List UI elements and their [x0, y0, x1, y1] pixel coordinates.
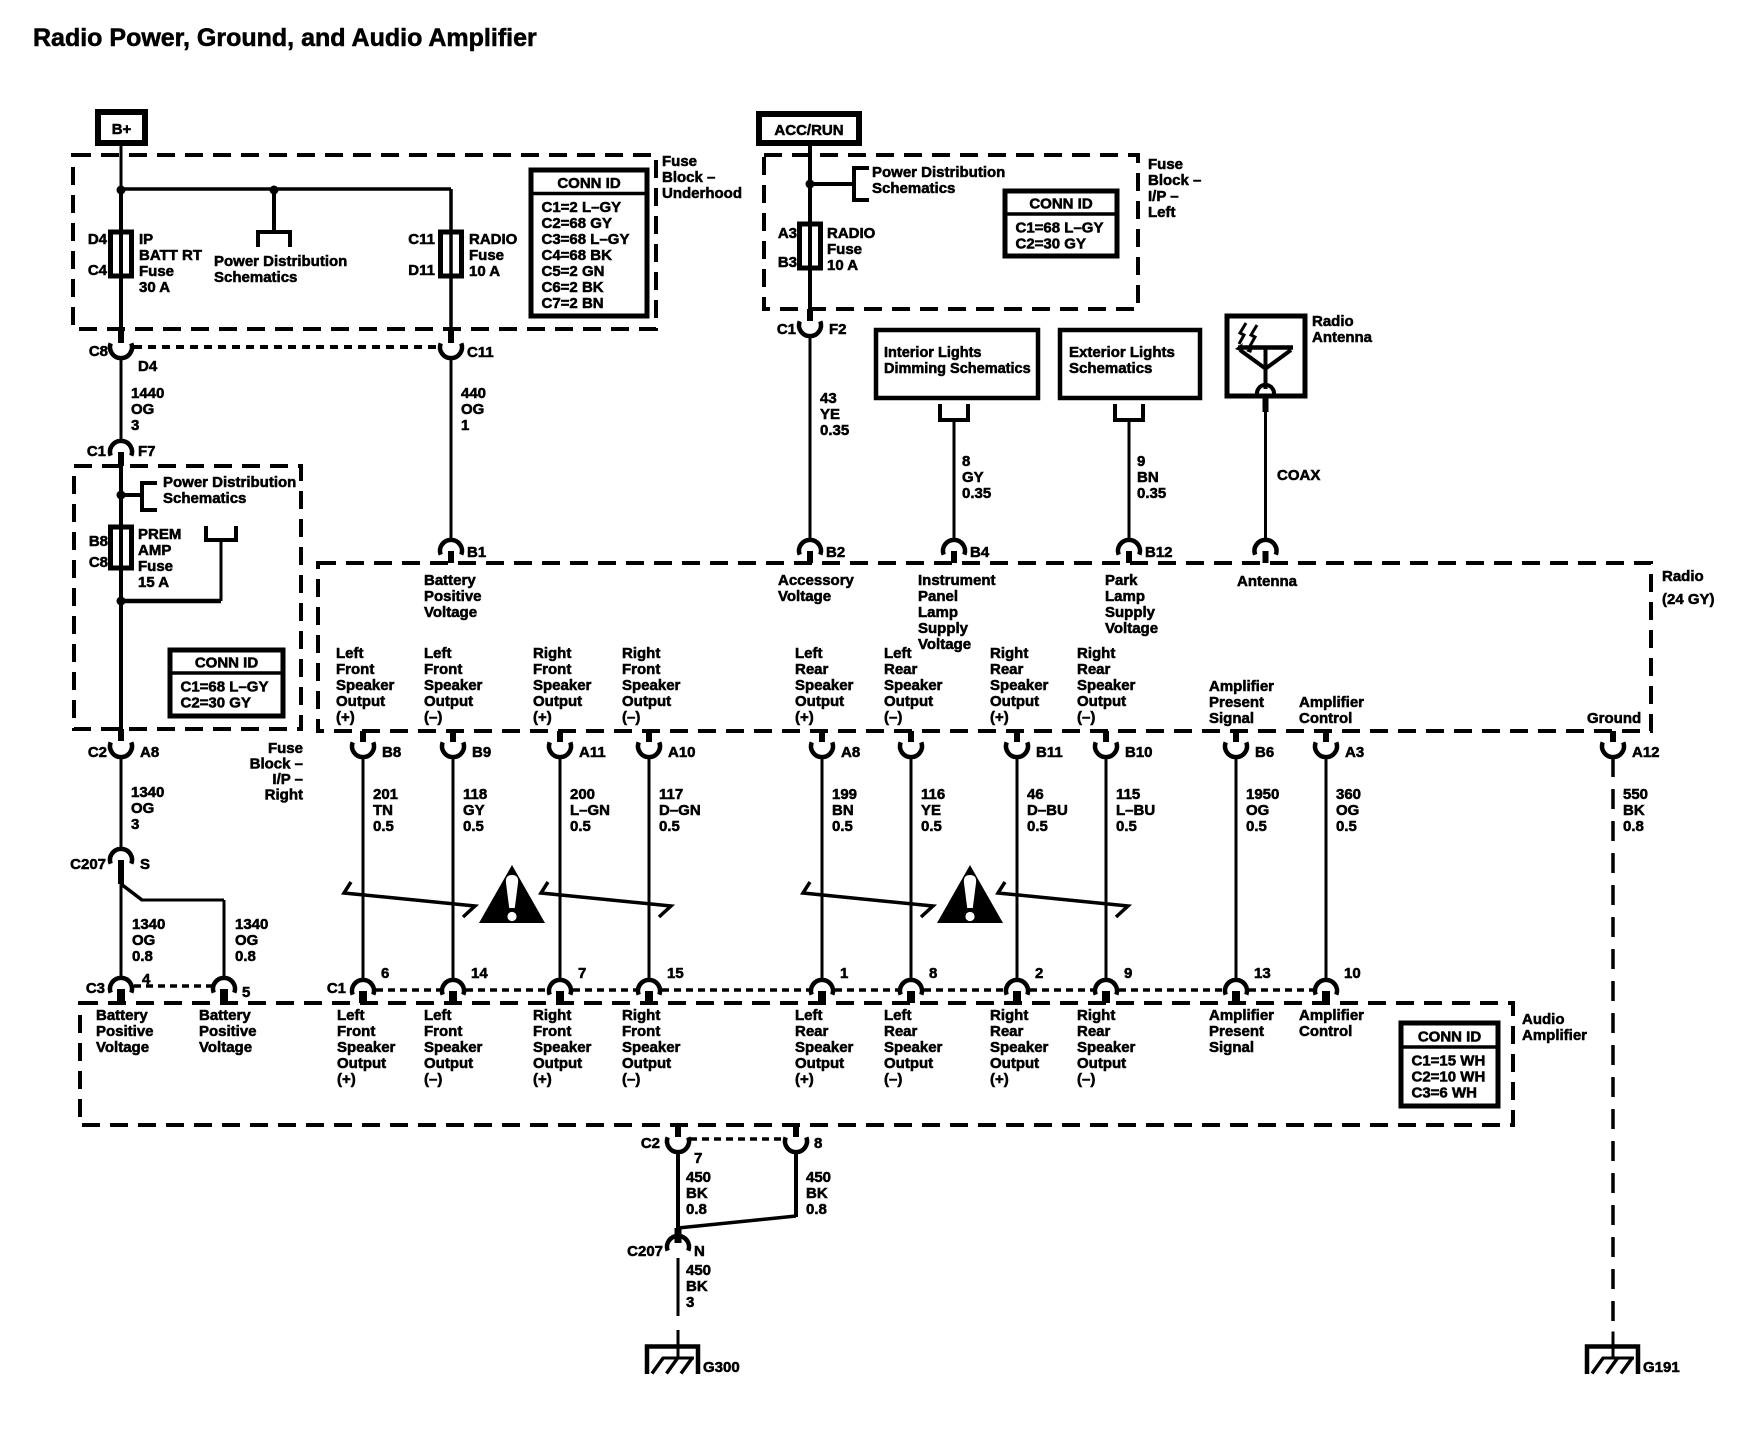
svg-text:OG: OG [1336, 802, 1359, 819]
svg-text:Exterior Lights: Exterior Lights [1069, 344, 1175, 361]
svg-text:Left: Left [337, 1007, 365, 1024]
svg-text:Output: Output [337, 1055, 386, 1072]
svg-text:1950: 1950 [1246, 786, 1279, 803]
svg-text:Right: Right [622, 645, 660, 662]
svg-text:0.5: 0.5 [832, 818, 853, 835]
connector table CONN ID I/P left [1005, 191, 1117, 256]
svg-text:F2: F2 [829, 321, 847, 338]
svg-text:C4: C4 [88, 262, 108, 279]
svg-text:440: 440 [461, 385, 486, 402]
svg-text:Speaker: Speaker [337, 1039, 396, 1056]
svg-text:0.8: 0.8 [132, 948, 153, 965]
svg-text:D11: D11 [408, 262, 435, 279]
connector C3 pin 4 [110, 978, 132, 993]
svg-text:Left: Left [424, 1007, 452, 1024]
svg-text:Audio: Audio [1522, 1011, 1565, 1028]
connector pin 5 [213, 978, 235, 993]
svg-text:(–): (–) [884, 1071, 902, 1088]
svg-text:Speaker: Speaker [795, 677, 854, 694]
connector C207 pin N [675, 1228, 682, 1243]
svg-text:Front: Front [424, 661, 462, 678]
svg-text:1340: 1340 [132, 916, 165, 933]
svg-text:0.5: 0.5 [463, 818, 484, 835]
svg-text:(+): (+) [533, 1071, 552, 1088]
connector radio pin B8 [360, 731, 366, 742]
fuse RADIO 10A underhood (C11/D11) [449, 189, 453, 329]
svg-text:Present: Present [1209, 1023, 1264, 1040]
svg-text:IP: IP [139, 231, 153, 248]
svg-text:Voltage: Voltage [778, 588, 831, 605]
svg-text:(+): (+) [795, 1071, 814, 1088]
svg-text:Radio: Radio [1312, 313, 1354, 330]
svg-text:450: 450 [686, 1262, 711, 1279]
svg-text:Front: Front [622, 1023, 660, 1040]
svg-text:(–): (–) [424, 1071, 442, 1088]
svg-text:Speaker: Speaker [990, 1039, 1049, 1056]
svg-text:A8: A8 [140, 744, 159, 761]
svg-text:9: 9 [1137, 453, 1145, 470]
svg-text:1: 1 [461, 417, 469, 434]
svg-text:C207: C207 [627, 1243, 663, 1260]
connector radio pin A11 [557, 731, 563, 742]
svg-text:Left: Left [884, 1007, 912, 1024]
connector B4 [943, 540, 965, 555]
svg-text:OG: OG [1246, 802, 1269, 819]
svg-text:RADIO: RADIO [827, 225, 876, 242]
svg-text:C2=68 GY: C2=68 GY [542, 215, 612, 232]
svg-text:OG: OG [235, 932, 258, 949]
svg-text:3: 3 [686, 1294, 694, 1311]
radio wave arrows [1239, 323, 1246, 344]
svg-text:C1: C1 [87, 443, 106, 460]
svg-text:Block –: Block – [250, 756, 303, 773]
svg-text:A3: A3 [778, 225, 797, 242]
connector C2 pin A8 [118, 729, 124, 741]
svg-text:Fuse: Fuse [139, 263, 174, 280]
svg-text:Park: Park [1105, 572, 1138, 589]
svg-text:Accessory: Accessory [778, 572, 855, 589]
svg-text:Output: Output [424, 1055, 473, 1072]
svg-text:B12: B12 [1145, 544, 1173, 561]
svg-text:13: 13 [1254, 965, 1271, 982]
svg-text:(–): (–) [884, 709, 902, 726]
svg-text:Schematics: Schematics [1069, 360, 1152, 377]
svg-text:Output: Output [533, 1055, 582, 1072]
svg-text:Panel: Panel [918, 588, 958, 605]
fuse PREM AMP 15A (B8/C8) [111, 527, 132, 568]
connector radio pin A3 [1323, 731, 1329, 742]
svg-text:BK: BK [686, 1278, 708, 1295]
svg-text:Right: Right [990, 1007, 1028, 1024]
svg-text:450: 450 [686, 1169, 711, 1186]
svg-text:Positive: Positive [96, 1023, 154, 1040]
svg-text:Dimming Schematics: Dimming Schematics [884, 361, 1031, 377]
svg-text:Control: Control [1299, 1023, 1352, 1040]
ground G300 [677, 1330, 680, 1346]
svg-text:10 A: 10 A [469, 263, 500, 280]
svg-text:YE: YE [820, 406, 840, 423]
svg-text:Amplifier: Amplifier [1209, 1007, 1274, 1024]
svg-text:Output: Output [424, 693, 473, 710]
svg-text:Right: Right [1077, 645, 1115, 662]
ignition terminal ACC/RUN [759, 114, 859, 143]
svg-text:GY: GY [463, 802, 485, 819]
svg-text:Interior Lights: Interior Lights [884, 345, 981, 361]
svg-text:I/P –: I/P – [272, 771, 303, 788]
svg-text:Lamp: Lamp [918, 604, 958, 621]
fuse block - I/P right box [74, 466, 301, 729]
svg-text:B8: B8 [382, 744, 401, 761]
svg-text:C1=68 L–GY: C1=68 L–GY [1016, 220, 1104, 237]
wire 116 YE 0.5 [910, 757, 913, 980]
svg-text:A11: A11 [579, 744, 606, 761]
svg-text:C11: C11 [467, 344, 494, 361]
radio component box [318, 563, 1651, 731]
wire 1340 OG 0.8 right branch [121, 884, 142, 900]
svg-text:Rear: Rear [990, 1023, 1024, 1040]
svg-text:Output: Output [990, 693, 1039, 710]
fuse IP BATT RT 30A (D4/C4) [119, 232, 123, 276]
svg-text:Voltage: Voltage [424, 604, 477, 621]
svg-text:1: 1 [840, 965, 848, 982]
svg-text:15: 15 [667, 965, 684, 982]
svg-text:OG: OG [461, 401, 484, 418]
wire 450 BK 3 [677, 1258, 680, 1316]
svg-text:(+): (+) [337, 1071, 356, 1088]
svg-text:Control: Control [1299, 710, 1352, 727]
svg-text:43: 43 [820, 390, 837, 407]
svg-text:2: 2 [1035, 965, 1043, 982]
svg-text:(–): (–) [424, 709, 442, 726]
connector pin 8 [793, 1125, 799, 1137]
svg-text:S: S [140, 856, 150, 873]
svg-text:Speaker: Speaker [1077, 677, 1136, 694]
svg-text:199: 199 [832, 786, 857, 803]
connector radio pin A10 [646, 731, 652, 742]
svg-text:C2: C2 [641, 1135, 660, 1152]
svg-text:115: 115 [1116, 786, 1140, 803]
svg-text:CONN ID: CONN ID [1418, 1029, 1482, 1046]
svg-text:N: N [694, 1243, 705, 1260]
twisted pair marker right front [541, 882, 671, 917]
svg-text:B3: B3 [778, 254, 797, 271]
svg-text:10 A: 10 A [827, 257, 858, 274]
svg-text:30 A: 30 A [139, 279, 170, 296]
connector C1 pin F7 [110, 441, 132, 456]
svg-text:Front: Front [533, 661, 571, 678]
svg-text:Left: Left [884, 645, 912, 662]
wire 9 BN 0.35 [1128, 420, 1131, 540]
connector table CONN ID underhood [531, 170, 647, 316]
connector C1 pin F2 [807, 309, 813, 321]
connector radio pin B6 [1233, 731, 1239, 742]
wire 199 BN 0.5 [821, 757, 824, 980]
svg-text:Power Distribution: Power Distribution [214, 253, 347, 270]
svg-text:C2: C2 [88, 744, 107, 761]
svg-text:Left: Left [424, 645, 452, 662]
connector table CONN ID amplifier [1401, 1023, 1498, 1106]
svg-text:15 A: 15 A [138, 574, 169, 591]
connector radio pin B10 [1103, 731, 1109, 742]
svg-text:C2=30 GY: C2=30 GY [181, 695, 251, 712]
svg-text:0.5: 0.5 [570, 818, 591, 835]
connector B12 [1118, 540, 1140, 555]
svg-text:C1=15 WH: C1=15 WH [1412, 1053, 1486, 1070]
svg-text:Antenna: Antenna [1237, 573, 1298, 590]
battery terminal B+ [98, 112, 145, 143]
svg-text:COAX: COAX [1277, 467, 1320, 484]
svg-text:(+): (+) [795, 709, 814, 726]
svg-text:Front: Front [622, 661, 660, 678]
svg-text:Front: Front [533, 1023, 571, 1040]
svg-text:Ground: Ground [1587, 710, 1641, 727]
svg-text:C1: C1 [777, 321, 796, 338]
svg-text:Output: Output [795, 693, 844, 710]
svg-text:Output: Output [533, 693, 582, 710]
svg-text:B10: B10 [1125, 744, 1153, 761]
svg-text:8: 8 [814, 1135, 822, 1152]
connector C8 pin D4 [118, 329, 124, 343]
svg-text:Schematics: Schematics [214, 269, 297, 286]
wire 46 D–BU 0.5 [1016, 757, 1019, 980]
svg-text:Fuse: Fuse [1148, 156, 1183, 173]
exterior lights reference bracket [1115, 404, 1143, 420]
svg-text:Output: Output [795, 1055, 844, 1072]
svg-text:Rear: Rear [795, 1023, 829, 1040]
svg-text:7: 7 [694, 1150, 702, 1167]
svg-text:CONN ID: CONN ID [195, 655, 259, 672]
svg-text:Block –: Block – [1148, 172, 1201, 189]
svg-text:B+: B+ [112, 121, 132, 138]
wire 450 BK 0.8 right [794, 1152, 798, 1217]
svg-text:Right: Right [533, 645, 571, 662]
svg-text:BK: BK [806, 1185, 828, 1202]
svg-text:Rear: Rear [884, 1023, 918, 1040]
svg-text:(+): (+) [336, 709, 355, 726]
wire bus inside underhood block [121, 187, 451, 191]
power distribution schematics reference (I/P right) [142, 483, 157, 510]
dotted harness line C8 to C11 [134, 345, 438, 349]
svg-text:Speaker: Speaker [990, 677, 1049, 694]
svg-text:L–GN: L–GN [570, 802, 610, 819]
wire through I/P right block [119, 466, 123, 729]
connector antenna input [1255, 540, 1277, 555]
exterior lights schematics box [1060, 330, 1200, 398]
svg-text:C4=68 BK: C4=68 BK [542, 247, 613, 264]
wire 1950 OG 0.5 [1235, 757, 1238, 980]
svg-text:C11: C11 [408, 231, 435, 248]
svg-text:(–): (–) [1077, 1071, 1095, 1088]
svg-text:1340: 1340 [235, 916, 268, 933]
svg-text:Block –: Block – [662, 169, 715, 186]
connector A12 [1610, 731, 1616, 742]
svg-text:Left: Left [1148, 204, 1176, 221]
svg-text:1340: 1340 [131, 784, 164, 801]
wire 200 L–GN 0.5 [559, 757, 562, 980]
svg-text:Output: Output [884, 1055, 933, 1072]
interior lights reference bracket [940, 404, 968, 420]
warning triangle rear speakers [937, 865, 1003, 923]
svg-text:AMP: AMP [138, 542, 171, 559]
connector B2 [799, 540, 821, 555]
svg-text:G191: G191 [1643, 1359, 1680, 1376]
svg-text:G300: G300 [703, 1359, 740, 1376]
connector radio pin A8 [819, 731, 825, 742]
svg-text:Lamp: Lamp [1105, 588, 1145, 605]
wire B+ to fuse block [120, 143, 123, 191]
svg-text:Amplifier: Amplifier [1209, 678, 1274, 695]
svg-text:C7=2 BN: C7=2 BN [542, 295, 604, 312]
svg-text:Radio Power, Ground, and Audio: Radio Power, Ground, and Audio Amplifier [33, 24, 537, 52]
connector radio pin (unlabeled) [908, 731, 914, 742]
svg-text:0.35: 0.35 [962, 485, 991, 502]
svg-text:Radio: Radio [1662, 568, 1704, 585]
svg-text:BK: BK [686, 1185, 708, 1202]
svg-text:0.35: 0.35 [820, 422, 849, 439]
connector C207 pin S [110, 849, 132, 864]
svg-text:F7: F7 [138, 443, 156, 460]
svg-text:BN: BN [1137, 469, 1159, 486]
svg-text:BN: BN [832, 802, 854, 819]
svg-text:0.5: 0.5 [921, 818, 942, 835]
svg-text:Schematics: Schematics [872, 180, 955, 197]
svg-text:C5=2 GN: C5=2 GN [542, 263, 605, 280]
svg-text:3: 3 [131, 417, 139, 434]
svg-text:Battery: Battery [96, 1007, 148, 1024]
svg-text:C6=2 BK: C6=2 BK [542, 279, 604, 296]
svg-text:PREM: PREM [138, 526, 181, 543]
svg-text:116: 116 [921, 786, 945, 803]
svg-text:Right: Right [990, 645, 1028, 662]
svg-text:117: 117 [659, 786, 683, 803]
svg-text:B8: B8 [89, 533, 108, 550]
node junction at IP BATT RT feed [117, 186, 126, 195]
svg-text:BATT RT: BATT RT [139, 247, 202, 264]
svg-text:Speaker: Speaker [622, 1039, 681, 1056]
fuse RADIO 10A I/P (A3/B3) [800, 224, 821, 268]
svg-text:9: 9 [1124, 965, 1132, 982]
svg-text:A12: A12 [1632, 744, 1660, 761]
wire COAX [1263, 396, 1269, 412]
svg-text:Battery: Battery [424, 572, 476, 589]
svg-text:Power Distribution: Power Distribution [163, 474, 296, 491]
svg-text:(–): (–) [1077, 709, 1095, 726]
node junction at power distribution tap [270, 186, 279, 195]
svg-text:201: 201 [373, 786, 398, 803]
svg-text:Fuse: Fuse [662, 153, 697, 170]
svg-text:Left: Left [795, 645, 823, 662]
svg-text:L–BU: L–BU [1116, 802, 1155, 819]
node junction prem amp return [117, 597, 126, 606]
svg-text:C1=2 L–GY: C1=2 L–GY [542, 199, 622, 216]
svg-text:0.8: 0.8 [806, 1201, 827, 1218]
svg-text:1440: 1440 [131, 385, 164, 402]
svg-text:0.8: 0.8 [235, 948, 256, 965]
wire 201 TN 0.5 [362, 757, 365, 980]
svg-text:46: 46 [1027, 786, 1044, 803]
svg-text:Output: Output [336, 693, 385, 710]
svg-text:D4: D4 [138, 358, 158, 375]
dotted harness line across amplifier connector row [376, 988, 440, 992]
svg-text:(–): (–) [622, 709, 640, 726]
svg-text:Schematics: Schematics [163, 490, 246, 507]
svg-text:B11: B11 [1036, 744, 1063, 761]
svg-text:Output: Output [1077, 693, 1126, 710]
svg-text:Speaker: Speaker [795, 1039, 854, 1056]
svg-text:Supply: Supply [1105, 604, 1156, 621]
connector C2 pin 7 [675, 1125, 681, 1137]
wire 43 YE 0.35 [809, 336, 812, 540]
svg-text:D4: D4 [88, 231, 108, 248]
svg-text:C8: C8 [89, 554, 108, 571]
svg-text:Speaker: Speaker [424, 677, 483, 694]
svg-text:Instrument: Instrument [918, 572, 996, 589]
svg-text:Signal: Signal [1209, 710, 1254, 727]
svg-text:Speaker: Speaker [336, 677, 395, 694]
svg-text:Front: Front [337, 1023, 375, 1040]
svg-text:B1: B1 [467, 544, 486, 561]
svg-text:C207: C207 [70, 856, 106, 873]
svg-text:Battery: Battery [199, 1007, 251, 1024]
svg-text:BK: BK [1623, 802, 1645, 819]
svg-text:Amplifier: Amplifier [1522, 1027, 1587, 1044]
svg-text:Right: Right [533, 1007, 571, 1024]
wire splice to C207 [678, 1216, 796, 1228]
svg-text:OG: OG [131, 401, 154, 418]
svg-text:Speaker: Speaker [622, 677, 681, 694]
audio amplifier component box [80, 1003, 1513, 1125]
radio antenna box [1227, 316, 1305, 396]
svg-text:C3=6 WH: C3=6 WH [1412, 1085, 1477, 1102]
svg-text:(+): (+) [990, 1071, 1009, 1088]
svg-text:Output: Output [1077, 1055, 1126, 1072]
prem amp feed reference bracket [206, 526, 236, 540]
svg-text:Positive: Positive [199, 1023, 257, 1040]
svg-text:Power Distribution: Power Distribution [872, 164, 1005, 181]
wire 360 OG 0.5 [1325, 757, 1328, 980]
svg-text:Left: Left [336, 645, 364, 662]
svg-text:C3=68 L–GY: C3=68 L–GY [542, 231, 630, 248]
svg-text:10: 10 [1344, 965, 1361, 982]
svg-text:Fuse: Fuse [268, 740, 303, 757]
svg-text:7: 7 [578, 965, 586, 982]
wire 450 BK 0.8 left [676, 1152, 680, 1229]
connector radio pin B9 [450, 731, 456, 742]
svg-text:A8: A8 [841, 744, 860, 761]
svg-text:550: 550 [1623, 786, 1648, 803]
svg-text:8: 8 [962, 453, 970, 470]
svg-text:CONN ID: CONN ID [557, 175, 621, 192]
wire 440 OG 1 [450, 358, 453, 540]
wire tap to power distribution [272, 190, 276, 232]
svg-text:A3: A3 [1345, 744, 1364, 761]
svg-text:Rear: Rear [884, 661, 918, 678]
svg-text:450: 450 [806, 1169, 831, 1186]
node junction ACC feed [806, 180, 815, 189]
svg-text:D–BU: D–BU [1027, 802, 1068, 819]
svg-text:Speaker: Speaker [1077, 1039, 1136, 1056]
svg-text:Voltage: Voltage [918, 636, 971, 653]
connector B1 [440, 540, 462, 555]
svg-text:B6: B6 [1255, 744, 1274, 761]
svg-text:Left: Left [795, 1007, 823, 1024]
interior lights dimming schematics box [876, 330, 1038, 398]
svg-text:6: 6 [381, 965, 389, 982]
svg-text:OG: OG [131, 800, 154, 817]
svg-text:200: 200 [570, 786, 595, 803]
connector table CONN ID I/P right [170, 650, 283, 716]
warning triangle front speakers [479, 865, 545, 923]
